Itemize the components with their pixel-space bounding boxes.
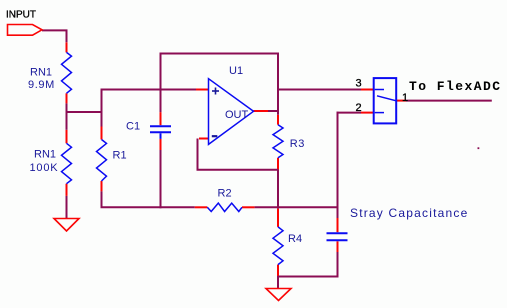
pin lead RN1-100K top <box>66 130 68 144</box>
op-amp U1 triangle <box>209 79 254 145</box>
wire node to R1 branch <box>66 111 102 113</box>
svg-text:RN1: RN1 <box>30 67 52 79</box>
wire R4 bottom to stray cap bottom <box>278 252 338 277</box>
svg-text:R3: R3 <box>290 138 305 150</box>
op-amp minus sign <box>212 135 218 137</box>
wire pin 2 to stray cap branch <box>337 112 362 114</box>
pin lead stray cap bottom <box>337 241 339 252</box>
connector pin 2 stub <box>375 112 384 114</box>
svg-text:2: 2 <box>356 102 362 114</box>
pin lead connector pin 1 <box>396 100 406 102</box>
pin lead R3 bottom <box>277 158 279 170</box>
wire output node to connector pin 3 <box>278 89 361 91</box>
connector switch lever <box>377 96 396 101</box>
ground GND right <box>266 289 291 301</box>
resistor RN1 100K body <box>62 143 72 183</box>
svg-text:RN1: RN1 <box>34 149 56 161</box>
op-amp plus sign <box>212 90 219 92</box>
svg-text:To FlexADC: To FlexADC <box>409 79 502 94</box>
wire pin 1 to FlexADC <box>406 100 492 102</box>
pin lead R3 top <box>277 115 279 125</box>
resistor RN1 9.9M body <box>62 52 72 93</box>
resistor R3 body <box>273 125 283 158</box>
wire top rail <box>161 54 279 115</box>
wire R1 top branch up to plus rail <box>102 90 197 127</box>
capacitor C1 top plate <box>150 125 171 127</box>
pin lead connector pin 3 <box>361 89 374 91</box>
resistor R1 body <box>97 140 107 182</box>
capacitor C1 bottom plate <box>150 131 171 133</box>
capacitor stray bottom plate <box>327 239 348 241</box>
wire R2 right to stray cap branch <box>255 206 337 208</box>
pin lead op-amp minus input <box>199 138 209 140</box>
resistor R2 body <box>207 203 242 211</box>
connector J1 body <box>374 78 397 123</box>
wire minus input feedback loop <box>198 139 279 170</box>
svg-text:U1: U1 <box>229 65 243 77</box>
svg-text:3: 3 <box>356 78 362 90</box>
pin lead op-amp output <box>254 110 269 112</box>
capacitor C1 stub <box>160 133 162 139</box>
ground GND left <box>54 219 79 232</box>
pin lead C1 top <box>160 112 162 125</box>
pin lead R1 top <box>101 127 103 140</box>
wire R4 to ground stub <box>277 277 279 290</box>
wire C1 bottom to feedback rail <box>160 150 162 208</box>
pin lead R2 right <box>242 206 255 208</box>
resistor R4 body <box>273 227 283 265</box>
pin lead RN1-9.9M top <box>66 42 68 52</box>
svg-text:9.9M: 9.9M <box>28 79 55 91</box>
svg-text:C1: C1 <box>126 121 140 133</box>
wire stray cap branch vertical <box>337 113 338 218</box>
capacitor stray top plate <box>327 232 348 234</box>
pin lead R1 bottom <box>101 181 103 191</box>
svg-text:R2: R2 <box>218 188 232 200</box>
wire R3 bottom to R4 top <box>277 170 279 209</box>
svg-text:100K: 100K <box>30 162 59 174</box>
wire R1 bottom to feedback rail <box>102 191 195 207</box>
pin lead op-amp plus input <box>196 89 209 91</box>
stray dot artifact <box>478 147 480 149</box>
svg-text:R1: R1 <box>113 150 127 162</box>
input port connector <box>8 25 43 36</box>
pin lead RN1-100K bottom <box>66 184 68 196</box>
pin lead connector pin 2 <box>361 112 374 114</box>
connector pin 3 stub <box>375 89 384 91</box>
svg-text:Stray Capacitance: Stray Capacitance <box>350 206 468 220</box>
pin lead R4 top <box>277 209 279 227</box>
svg-text:R4: R4 <box>288 233 302 245</box>
wire RN1-9.9M bottom to node <box>66 103 68 129</box>
pin lead R4 bottom <box>277 265 279 276</box>
pin lead C1 bottom <box>160 139 162 150</box>
wire 100K to ground <box>66 196 68 219</box>
pin lead RN1-9.9M bottom <box>66 93 68 103</box>
svg-text:1: 1 <box>402 92 408 104</box>
pin lead R2 left <box>195 206 208 208</box>
svg-text:OUT: OUT <box>225 109 249 121</box>
svg-text:INPUT: INPUT <box>6 10 36 21</box>
pin lead stray cap top <box>337 218 339 232</box>
wire input to RN1 top <box>42 30 67 42</box>
wire output to R3 rail <box>268 110 279 112</box>
